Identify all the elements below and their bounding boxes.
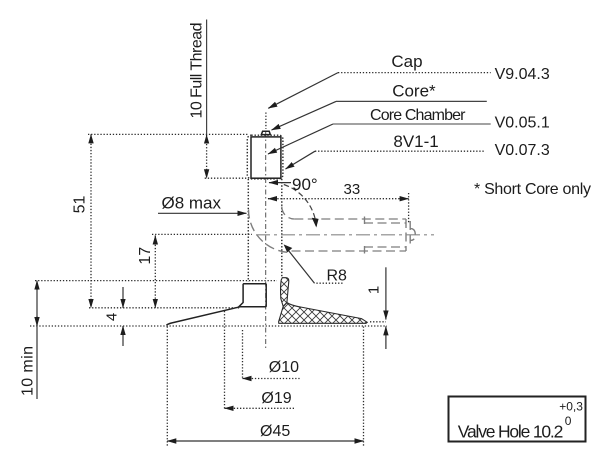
dim 51 line: [90, 134, 92, 307]
hole right edge: [363, 327, 365, 447]
dim 10 min line: [36, 283, 38, 399]
rim plane line A: [35, 280, 277, 282]
dim 17 top reference (tube axis): [152, 233, 252, 235]
svg-text:51: 51: [72, 196, 89, 214]
svg-text:Ø8 max: Ø8 max: [162, 194, 222, 213]
90 degree arc arrowhead: [312, 218, 319, 228]
thread bottom reference: [205, 177, 248, 179]
tube thread root bottom: [364, 246, 406, 248]
svg-text:Core Chamber: Core Chamber: [370, 107, 466, 124]
svg-text:4: 4: [104, 313, 121, 321]
small arrow at stem centerline: [269, 182, 291, 184]
bent tube inner elbow arc: [282, 207, 295, 220]
tube end nub: [409, 221, 411, 248]
valve hole box: [449, 397, 586, 442]
dim 33 line: [268, 198, 409, 200]
svg-text:Cap: Cap: [391, 52, 422, 71]
svg-text:Ø45: Ø45: [260, 423, 290, 440]
8V1-1 leader: [286, 151, 316, 169]
svg-text:10 Full Thread: 10 Full Thread: [189, 23, 206, 119]
svg-text:R8: R8: [327, 268, 348, 285]
90 degree arc: [284, 185, 317, 227]
Core underline: [336, 100, 487, 102]
svg-text:Ø19: Ø19: [261, 390, 291, 407]
svg-text:17: 17: [137, 247, 154, 265]
svg-text:1: 1: [366, 286, 383, 294]
Core Chamber leader: [268, 124, 333, 154]
o19 extension: [224, 311, 226, 409]
dim o45 line: [167, 440, 363, 442]
Cap leader: [268, 73, 338, 109]
svg-text:0: 0: [565, 414, 572, 428]
dim 4 upper arrow: [122, 287, 124, 308]
dim 10 full thread line: [206, 135, 208, 179]
svg-text:10 min: 10 min: [20, 346, 37, 396]
rim hole plane line C: [30, 325, 387, 327]
R8 leader: [315, 282, 343, 284]
Core leader: [272, 101, 337, 130]
tube thread start: [364, 217, 366, 225]
centerline of valve: [265, 132, 267, 350]
svg-text:8V1-1: 8V1-1: [393, 132, 438, 151]
top reference line: [88, 133, 249, 135]
svg-text:V0.05.1: V0.05.1: [495, 115, 550, 132]
o10 extension: [242, 330, 244, 379]
svg-text:* Short Core only: * Short Core only: [474, 181, 591, 198]
valve stem right edge: [281, 179, 283, 278]
tube thread root top: [364, 222, 406, 224]
cap nub on top of core: [261, 131, 270, 134]
rim surface line B: [89, 307, 240, 309]
dim 1 reference: [370, 321, 386, 323]
dim 4 lower arrow: [122, 326, 124, 346]
base top slope exterior: [167, 307, 241, 325]
svg-text:Ø10: Ø10: [269, 359, 299, 376]
collar exterior left: [239, 284, 266, 307]
dim 10 full thread extension line: [206, 20, 208, 135]
tube top edge: [294, 218, 406, 220]
rubber base wedge section (hatched): [279, 303, 368, 324]
Cap underline: [338, 72, 491, 74]
cap phantom line: [265, 113, 267, 129]
dim 1 lower arrow: [385, 326, 387, 349]
dim o10 line: [243, 378, 301, 380]
svg-text:+0,3: +0,3: [559, 400, 583, 414]
svg-text:Core*: Core*: [392, 82, 436, 101]
section split line: [265, 284, 267, 307]
dim 1 upper arrow: [385, 267, 387, 319]
tube bottom edge: [292, 250, 407, 252]
svg-text:Valve Hole 10.2: Valve Hole 10.2: [458, 422, 564, 442]
dim 33 extension: [408, 193, 410, 224]
tube end: [405, 219, 407, 251]
hole left edge: [166, 327, 168, 447]
svg-text:V9.04.3: V9.04.3: [495, 66, 550, 83]
collar top edge: [243, 283, 266, 285]
Core Chamber underline: [333, 123, 491, 125]
dim o19 line: [225, 407, 295, 409]
8V1-1 underline: [315, 150, 485, 152]
rubber section band (hatched): [281, 278, 289, 307]
tube centerline: [256, 234, 434, 236]
bent tube outer elbow arc: [249, 210, 292, 253]
dim 17 line: [154, 236, 156, 308]
chamber outer dotted outline: [247, 135, 283, 179]
svg-text:V0.07.3: V0.07.3: [495, 142, 550, 159]
svg-text:90°: 90°: [292, 175, 318, 194]
core chamber body: [251, 137, 281, 178]
svg-text:33: 33: [344, 181, 361, 198]
valve stem left edge: [247, 179, 249, 282]
dim o8 max leader: [158, 212, 247, 214]
